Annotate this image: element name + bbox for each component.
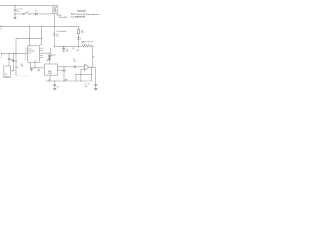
svg-text:ANT: ANT bbox=[65, 78, 68, 81]
svg-text:5v1: 5v1 bbox=[56, 36, 59, 38]
svg-text:555: 555 bbox=[21, 66, 24, 68]
svg-text:TX1: TX1 bbox=[54, 11, 57, 13]
svg-text:470: 470 bbox=[81, 32, 84, 34]
svg-text:103: 103 bbox=[73, 61, 76, 63]
svg-text:104: 104 bbox=[66, 51, 69, 53]
svg-text:"The Camera": "The Camera" bbox=[77, 11, 86, 13]
svg-text:PIR Class B Transmitter: PIR Class B Transmitter bbox=[71, 13, 99, 16]
svg-text:in: in bbox=[0, 57, 1, 59]
svg-text:433M: 433M bbox=[48, 73, 53, 75]
svg-text:R4: R4 bbox=[92, 57, 94, 59]
svg-text:osc: osc bbox=[34, 61, 37, 63]
svg-text:enc: enc bbox=[29, 53, 32, 55]
svg-text:in: in bbox=[0, 28, 1, 30]
svg-text:osc: osc bbox=[60, 70, 63, 72]
svg-text:104: 104 bbox=[85, 86, 88, 88]
svg-text:R3: R3 bbox=[72, 48, 74, 50]
svg-text:5V regulated: 5V regulated bbox=[56, 30, 66, 33]
svg-text:out to relay sw: out to relay sw bbox=[82, 40, 94, 43]
svg-text:VC1: VC1 bbox=[52, 55, 55, 57]
svg-text:4: 4 bbox=[39, 70, 40, 72]
svg-text:fb: fb bbox=[88, 83, 89, 85]
svg-text:by WB6DHW: by WB6DHW bbox=[71, 17, 85, 19]
svg-text:D1: D1 bbox=[35, 11, 37, 13]
svg-text:10k: 10k bbox=[76, 50, 79, 52]
svg-text:C8: C8 bbox=[57, 86, 59, 88]
svg-text:GND DATA: GND DATA bbox=[58, 16, 67, 19]
svg-text:C2: C2 bbox=[15, 61, 17, 63]
svg-text:104: 104 bbox=[17, 11, 20, 13]
svg-text:sensor: sensor bbox=[4, 76, 9, 78]
svg-text:S1: S1 bbox=[20, 9, 22, 11]
